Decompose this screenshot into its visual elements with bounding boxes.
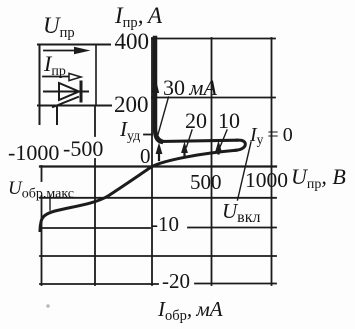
svg-text:Iпр: Iпр [43, 51, 66, 79]
svg-text:Uпр, В: Uпр, В [291, 164, 346, 192]
vertical grid left edge -1000 lower part [41, 196, 43, 285]
thyristor triangle [59, 83, 79, 100]
arrowhead snapback 20mA [181, 142, 188, 154]
svg-text:Iобр, мА: Iобр, мА [157, 297, 223, 324]
thyristor cathode bar [80, 82, 83, 101]
grid line 200 level [152, 97, 275, 99]
grid bottom line -20 level left part [40, 283, 158, 285]
svg-text:10: 10 [218, 108, 240, 133]
vertical grid right edge 1000 [271, 38, 273, 285]
vertical grid 500 [211, 38, 213, 285]
arrowhead solid U_pr arrow [74, 47, 91, 54]
curve reverse branch [40, 167, 152, 231]
leader U_vkl to breakover point [238, 142, 252, 200]
curve breakover loop [236, 140, 245, 150]
svg-text:Iуд: Iуд [119, 117, 140, 144]
leader 30mA [157, 97, 169, 138]
grid line -10 level right part [188, 227, 276, 229]
I_pr open arrow shaft [43, 76, 69, 78]
thyristor gate terminal wire [56, 106, 58, 124]
vertical grid -500 upper part [94, 106, 96, 137]
svg-text:400: 400 [115, 29, 150, 54]
svg-text:Uпр: Uпр [43, 13, 75, 41]
vertical grid y-axis [151, 38, 153, 285]
svg-text:500: 500 [190, 170, 222, 194]
leader U_obr_max [49, 196, 51, 210]
svg-text:-10: -10 [151, 212, 179, 236]
curve steep forward branch [155, 38, 161, 142]
svg-text:200: 200 [114, 92, 149, 117]
grid top line 400 level [152, 38, 275, 40]
grid bottom line -20 level right part [195, 283, 276, 285]
vertical grid -500 lower part [94, 159, 96, 285]
svg-text:Iпр, А: Iпр, А [114, 3, 163, 31]
curve off-state branch [152, 150, 236, 166]
grid line -10 level left part [40, 227, 150, 229]
thyristor gate wire [53, 97, 78, 107]
svg-text:Uвкл: Uвкл [222, 199, 261, 226]
leader 20 [187, 130, 193, 147]
snapback line 10mA [217, 147, 219, 154]
x axis [40, 165, 276, 167]
svg-text:-20: -20 [162, 269, 190, 293]
arrowhead on steep branch [152, 78, 159, 93]
I_ud tick [144, 134, 152, 136]
svg-text:1000: 1000 [245, 168, 288, 192]
curve on-state flat branch [161, 140, 237, 141]
inset box bottom edge with 200 tick [38, 105, 111, 107]
U_pr solid arrow shaft [44, 50, 79, 52]
thyristor VS lead wire [44, 91, 88, 93]
grid line -15 level [40, 255, 276, 257]
grid line -5 level [40, 197, 276, 199]
arrowhead snapback 10mA [215, 141, 222, 153]
svg-text:-500: -500 [63, 136, 103, 161]
svg-text:Iу = 0: Iу = 0 [249, 124, 293, 147]
scan speckle dot [46, 304, 50, 308]
inset box top edge with 400 tick [38, 44, 110, 46]
snapback line 30mA [158, 148, 160, 160]
svg-text:0: 0 [140, 144, 151, 168]
inset box left edge [39, 45, 41, 125]
inset box right edge [95, 45, 97, 106]
snapback line 20mA [183, 148, 185, 157]
arrowhead snapback 30mA [156, 143, 163, 155]
vertical grid left edge -1000 upper part [41, 166, 43, 181]
svg-text:20: 20 [185, 108, 207, 133]
svg-text:-1000: -1000 [8, 140, 59, 165]
leader 10 [220, 130, 227, 147]
svg-text:30 мА: 30 мА [163, 75, 217, 100]
arrowhead open I_pr arrow [69, 73, 81, 80]
